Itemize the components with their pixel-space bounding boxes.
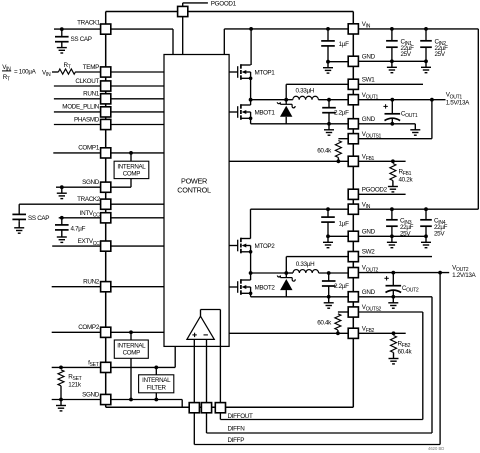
internal filter block [139, 375, 174, 393]
wire diffamp + input to DIFFP [193, 339, 195, 403]
pin COMP1 [53, 152, 100, 154]
wire VIN1 left segment [224, 28, 348, 30]
diode D2 (schottky, ch2) [277, 273, 295, 297]
transistor MBOT2 [229, 279, 251, 295]
wire diffamp output loop [200, 310, 202, 317]
svg-text:COMP: COMP [123, 171, 140, 178]
diode D1 (schottky, ch1) [277, 100, 295, 124]
svg-text:60.4k: 60.4k [317, 320, 332, 327]
transistor MBOT1 [229, 104, 251, 120]
svg-text:DIFFP: DIFFP [228, 437, 245, 444]
resistor RFB2 60.4k [392, 331, 396, 335]
pin box fSET [101, 362, 111, 372]
wire GND4 right [358, 296, 432, 298]
pin box INTVCC [101, 213, 111, 223]
svg-text:SW1: SW1 [362, 76, 376, 83]
ground (CIN4) [421, 236, 431, 247]
wire VOUT1 right [358, 99, 445, 101]
svg-text:0.33µH: 0.33µH [296, 88, 315, 95]
ground (CIN3) [387, 236, 397, 247]
ground (TRACK2 SS CAP) [14, 222, 24, 233]
pin box DIFFP [189, 403, 199, 413]
svg-text:SW2: SW2 [362, 249, 376, 256]
pin box VIN (right) [348, 204, 358, 214]
power control block U1 [164, 55, 229, 347]
inductor L2 0.33uH [286, 272, 293, 274]
pin COMP2 [52, 331, 101, 333]
node SW2 [249, 271, 253, 275]
wire MBOT2 source to gnd rail [250, 293, 252, 297]
svg-text:SGND: SGND [82, 179, 100, 186]
pin box DIFFN [201, 403, 211, 413]
pin INTVCC [59, 217, 101, 219]
pin SGND (top) [56, 186, 101, 188]
ground (SGND top) [60, 185, 64, 189]
svg-text:60.4k: 60.4k [398, 348, 413, 355]
wire diffamp - input to DIFFN [206, 339, 208, 403]
svg-text:MBOT2: MBOT2 [255, 284, 276, 291]
ground (2.2uF ch2) [324, 297, 334, 308]
svg-text:SS CAP: SS CAP [28, 215, 49, 222]
svg-text:4.7µF: 4.7µF [71, 226, 86, 233]
resistor RSET 121k [59, 366, 63, 370]
ground (2.2uF ch1) [324, 124, 334, 135]
svg-text:PGOOD2: PGOOD2 [362, 186, 388, 193]
svg-text:2.2µF: 2.2µF [334, 283, 349, 290]
svg-text:TRACK1: TRACK1 [77, 20, 101, 27]
svg-text:SGND: SGND [82, 391, 100, 398]
pin box EXTVCC [101, 241, 111, 251]
svg-text:121k: 121k [68, 381, 82, 388]
wire VFB2 [229, 332, 406, 334]
pin box SW1 (right) [348, 79, 358, 89]
wire GND3 right [358, 235, 426, 237]
wire VOUT2 right [358, 272, 449, 274]
pin box TEMP [101, 67, 111, 77]
svg-text:PHASMD: PHASMD [74, 116, 100, 123]
svg-text:INTERNAL: INTERNAL [117, 164, 146, 171]
svg-text:4620 BD: 4620 BD [428, 446, 444, 451]
pin RUN1 [54, 98, 101, 100]
wire internal comp 1 to SGND [130, 179, 132, 188]
ground (CIN2) [421, 61, 431, 72]
pin box RUN1 [101, 94, 111, 104]
capacitor CIN4 22uF 25V [424, 207, 428, 211]
svg-text:MBOT1: MBOT1 [255, 109, 276, 116]
wire SW node to SW1 pin [251, 99, 287, 101]
capacitor 2.2uF (ch2) [327, 271, 331, 275]
pin fSET [52, 366, 101, 368]
svg-text:1.2V/13A: 1.2V/13A [452, 272, 476, 279]
node COMP2/internal comp junction [129, 330, 133, 334]
svg-text:INTERNAL: INTERNAL [117, 342, 146, 349]
svg-text:2.2µF: 2.2µF [334, 110, 349, 117]
wire GND3 left stub [328, 235, 348, 237]
svg-text:GND: GND [362, 228, 376, 235]
resistor RT [58, 69, 75, 74]
node fSET/internal filter junction [154, 366, 158, 370]
pin box SGND [101, 182, 111, 192]
gnd rail ch1 [251, 123, 349, 125]
node VOUT1 sense [430, 98, 434, 102]
node RSET bottom junction [129, 398, 133, 402]
ground (TRACK1 SS CAP) [57, 42, 67, 53]
wire MTOP1 source to SW node [250, 78, 252, 99]
svg-text:25V: 25V [434, 230, 445, 237]
capacitor COUT1 [390, 98, 394, 102]
pin box GND (right) [348, 292, 358, 302]
internal comp block 1 [114, 161, 149, 178]
svg-text:COMP2: COMP2 [78, 324, 100, 331]
pin box COMP2 [101, 327, 111, 337]
pin box GND (right) [348, 119, 358, 129]
wire VFB1 [229, 160, 406, 162]
pin EXTVCC [52, 245, 100, 247]
wire VOUT2 to DIFFP loop [439, 273, 441, 445]
wire internal filter to SGND [155, 393, 157, 400]
pin box VOUTS1 (right) [348, 134, 358, 144]
capacitor SS CAP (TRACK1) [60, 27, 64, 31]
svg-text:DIFFN: DIFFN [228, 425, 246, 432]
capacitor CIN1 22uF 25V [390, 27, 394, 31]
svg-text:= 100µA: = 100µA [14, 69, 37, 76]
svg-text:POWER: POWER [181, 177, 207, 186]
gnd rail ch2 [251, 296, 349, 298]
svg-text:COMP: COMP [123, 350, 140, 357]
svg-text:MTOP1: MTOP1 [255, 69, 276, 76]
pin box GND (right) [348, 56, 358, 66]
svg-text:0.33µH: 0.33µH [296, 261, 315, 268]
node COMP1/internal comp junction [129, 151, 133, 155]
capacitor 4.7uF [60, 216, 64, 220]
svg-text:40.2k: 40.2k [399, 176, 414, 183]
inductor L1 0.33uH [286, 99, 293, 101]
svg-text:1µF: 1µF [339, 41, 349, 48]
svg-text:COMP1: COMP1 [78, 145, 100, 152]
wire VOUTS1 sense loop [431, 100, 433, 139]
svg-text:MTOP2: MTOP2 [255, 243, 276, 250]
pin box VOUT2 (right) [348, 268, 358, 278]
resistor RFB1 40.2k [391, 159, 395, 163]
pin box TRACK1 [101, 24, 111, 34]
pin box VFB2 (right) [348, 328, 358, 338]
node MTOP1 drain [249, 27, 253, 31]
ground (COUT1/GND2) [410, 124, 420, 135]
wire SW2 node to SW2 pin [251, 272, 287, 274]
pin box VFB1 (right) [348, 156, 358, 166]
svg-text:1.5V/13A: 1.5V/13A [446, 99, 470, 106]
svg-text:GND: GND [362, 116, 376, 123]
capacitor CIN2 22uF 25V [424, 27, 428, 31]
pin box CLKOUT [101, 81, 111, 91]
svg-text:25V: 25V [435, 51, 446, 58]
ground (1uF ch1) [323, 62, 333, 73]
pin CLKOUT [54, 85, 101, 87]
svg-text:DIFFOUT: DIFFOUT [228, 413, 254, 420]
capacitor CIN3 22uF 25V [390, 207, 394, 211]
pin box SW2 (right) [348, 252, 358, 262]
pin box PHASMD [101, 119, 111, 129]
transistor MTOP1 [229, 64, 251, 80]
ground (COUT2) [388, 297, 398, 308]
wire internal comp 2 to SGND [130, 358, 132, 399]
capacitor 1uF (ch2) [326, 207, 330, 211]
node SW1 [249, 98, 253, 102]
pin TRACK2 [19, 203, 100, 205]
wire PGOOD2 stub [358, 193, 405, 195]
pin box SGND [101, 394, 111, 404]
resistor 60.4k (ch1 divider top) [338, 138, 348, 140]
ground (CIN1) [387, 61, 397, 72]
pin TRACK1 [54, 28, 101, 30]
IC outline (chip boundary) [106, 11, 354, 13]
internal comp block 2 [114, 340, 148, 358]
pin SGND (bottom) [52, 399, 101, 401]
transistor MTOP2 [229, 238, 251, 254]
wire GND1 right [358, 60, 426, 62]
svg-text:60.4k: 60.4k [317, 147, 332, 154]
capacitor 2.2uF (ch1) [327, 98, 331, 102]
svg-text:INTERNAL: INTERNAL [142, 377, 171, 384]
wire VOUTS2 to DIFFOUT loop [358, 311, 422, 313]
pin box PGOOD2 (right) [348, 189, 358, 199]
capacitor SS CAP (TRACK2) [18, 204, 20, 214]
svg-text:GND: GND [362, 53, 376, 60]
svg-text:GND: GND [362, 289, 376, 296]
wire GND4 to DIFFN loop [431, 297, 433, 433]
capacitor COUT2 [391, 271, 395, 275]
wire GND1 left stub [328, 61, 348, 63]
pin PGOOD1 [182, 3, 184, 7]
wire VIN2 right [358, 208, 478, 210]
pin box RUN2 [101, 282, 111, 292]
wire VIN1 right / rail [358, 28, 478, 30]
node VOUT2 sense (DIFFP) [438, 271, 442, 275]
svg-text:1µF: 1µF [339, 221, 349, 228]
svg-text:TEMP: TEMP [83, 64, 99, 71]
svg-text:RUN2: RUN2 [83, 279, 100, 286]
ground (4.7uF) [57, 231, 67, 242]
pin box VOUTS2 (right) [348, 307, 358, 317]
wire MTOP2 source to SW2 node [250, 252, 252, 273]
wire MBOT1 source to gnd rail [250, 118, 252, 124]
pin box GND (right) [348, 231, 358, 241]
svg-text:PGOOD1: PGOOD1 [211, 0, 237, 7]
svg-text:CLKOUT: CLKOUT [75, 78, 99, 85]
svg-text:SS CAP: SS CAP [71, 36, 92, 43]
ground (SGND bottom) [59, 398, 63, 402]
svg-text:FILTER: FILTER [147, 384, 167, 391]
op-amp diff amp (triangle) [187, 316, 214, 339]
pin box TRACK2 [101, 199, 111, 209]
pin box VOUT1 (right) [348, 95, 358, 105]
svg-text:25V: 25V [401, 51, 412, 58]
svg-text:CONTROL: CONTROL [177, 186, 211, 195]
resistor 60.4k (ch2 divider top) [338, 311, 348, 313]
svg-text:RUN1: RUN1 [83, 91, 100, 98]
ground (1uF ch2) [323, 236, 333, 247]
pin MODE_PLLIN [54, 111, 101, 113]
pin box MODE_PLLIN [101, 107, 111, 117]
svg-text:MODE_PLLIN: MODE_PLLIN [62, 104, 99, 111]
pin box VIN (right) [348, 24, 358, 34]
pin RUN2 [52, 286, 101, 288]
pin box DIFFOUT [215, 403, 225, 413]
pin box COMP1 [101, 148, 111, 158]
pin box PGOOD1 [178, 6, 188, 16]
svg-text:TRACK2: TRACK2 [77, 196, 101, 203]
pin PHASMD [54, 124, 101, 126]
wire VIN2 left segment [251, 208, 349, 210]
capacitor 1uF (ch1) [326, 27, 330, 31]
wire GND2 right [358, 123, 415, 125]
